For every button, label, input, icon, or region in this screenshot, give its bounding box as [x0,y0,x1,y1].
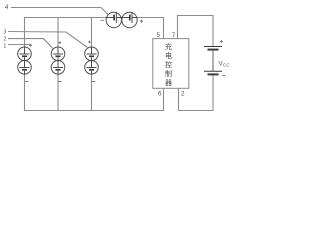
svg-text:制: 制 [165,69,172,78]
svg-text:电: 电 [165,51,172,60]
svg-text:2: 2 [181,91,185,98]
svg-text:控: 控 [165,60,172,69]
svg-text:5: 5 [157,32,161,39]
svg-text:器: 器 [165,79,172,87]
svg-text:6: 6 [158,91,162,98]
svg-text:7: 7 [172,32,176,39]
svg-text:CC: CC [223,63,230,68]
svg-text:充: 充 [165,42,172,51]
svg-text:1: 1 [4,43,7,49]
svg-text:3: 3 [4,30,7,36]
svg-text:2: 2 [4,37,7,43]
